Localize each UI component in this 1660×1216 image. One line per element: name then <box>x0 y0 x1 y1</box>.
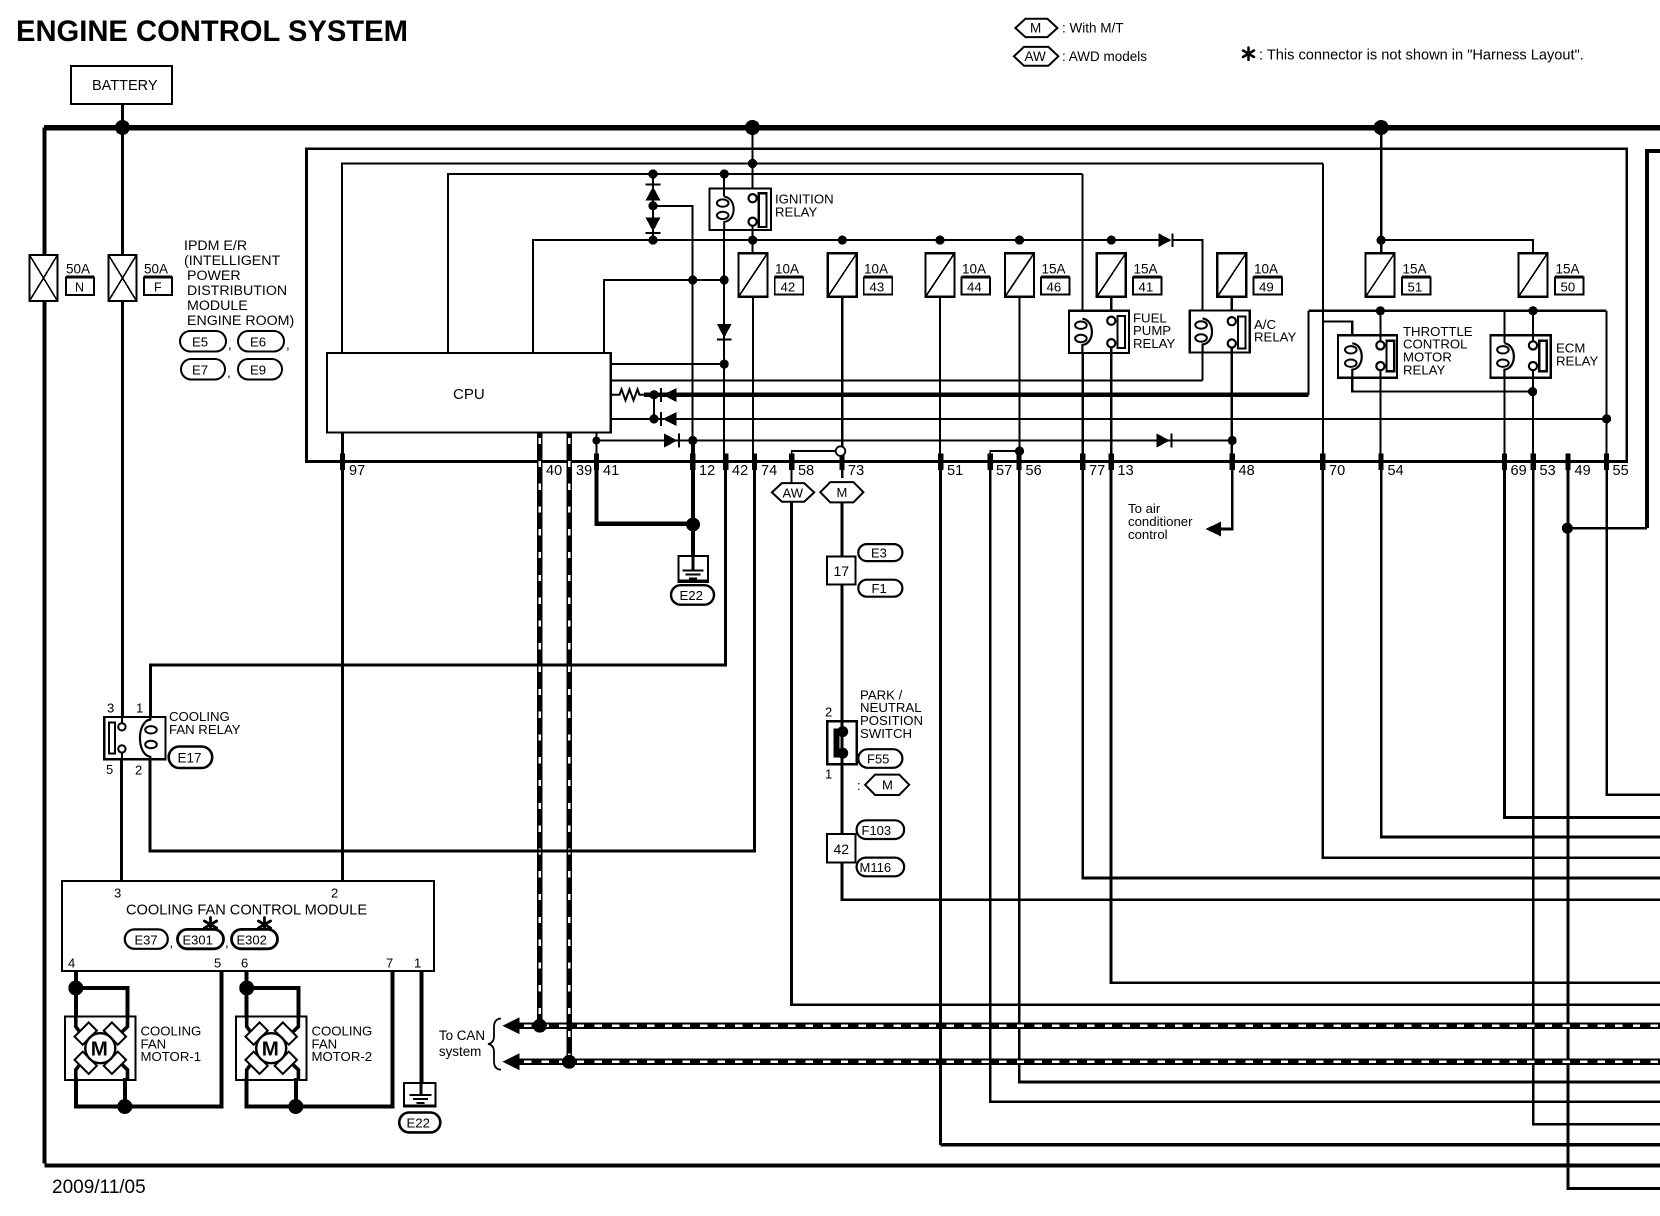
ground E22 lower <box>404 1083 435 1107</box>
IPDM E/R box <box>307 149 1627 462</box>
wire main battery bus <box>44 125 1660 131</box>
pin 13 <box>1109 454 1114 471</box>
pin 56 <box>1017 454 1022 471</box>
node ignition coil CPU drive <box>720 360 729 369</box>
diode chain top D1 cathode up <box>646 184 661 186</box>
wire fuse bus diode to A/C coil <box>1174 240 1203 310</box>
svg-text:73: 73 <box>848 463 864 479</box>
svg-text:: AWD models: : AWD models <box>1062 49 1147 64</box>
wire fuse F riser <box>121 128 124 256</box>
svg-text:M: M <box>262 1038 279 1061</box>
svg-text:15A: 15A <box>1134 262 1158 277</box>
svg-text:E17: E17 <box>178 751 202 766</box>
svg-text:54: 54 <box>1388 463 1404 479</box>
node pin 49 to ECM box corner <box>1562 523 1573 534</box>
wire CPU to A/C relay coil y380.5 <box>611 379 1203 381</box>
fuse 49 10A <box>1217 253 1282 297</box>
svg-text:43: 43 <box>870 280 885 295</box>
connector E37 oval <box>125 918 278 951</box>
wire CPU battery feed thick <box>644 392 1309 397</box>
node battery bus junction <box>115 120 130 135</box>
svg-text:POWER: POWER <box>187 268 241 284</box>
svg-text:39: 39 <box>576 463 592 479</box>
pin 55 <box>1604 454 1609 471</box>
svg-text:53: 53 <box>1540 463 1556 479</box>
wire throttle coil feed <box>1323 322 1352 344</box>
fuel pump relay U-fp <box>1069 311 1129 353</box>
svg-text:10A: 10A <box>1254 262 1278 277</box>
svg-text:MODULE: MODULE <box>187 298 248 314</box>
connector E6 <box>238 331 284 352</box>
arrow CAN line 2 <box>502 1053 519 1070</box>
connector box 17 <box>827 557 856 585</box>
svg-text:48: 48 <box>1239 463 1255 479</box>
pin 70 <box>1320 454 1325 471</box>
svg-text:10A: 10A <box>864 262 888 277</box>
svg-text:,: , <box>170 935 174 950</box>
svg-text:42: 42 <box>732 463 748 479</box>
node motor 1 return <box>117 1099 132 1114</box>
pin 42 <box>723 454 728 471</box>
wire throttle contact to pin 54 <box>1379 370 1381 454</box>
wire pin 55 vertical <box>1605 311 1607 462</box>
diode on CPU battery feed cathode left <box>660 388 662 402</box>
wire riser fuse51 node to thick feed <box>1307 311 1309 395</box>
wire pin 70 down <box>1323 462 1660 858</box>
wire fuel pump coil feed down <box>1081 174 1083 320</box>
svg-text:15A: 15A <box>1556 262 1580 277</box>
svg-text:F55: F55 <box>867 752 889 767</box>
node fuse44 feed <box>935 236 944 245</box>
svg-text:2: 2 <box>331 886 338 901</box>
node y440 CPU stub <box>592 437 600 445</box>
svg-text:51: 51 <box>947 463 963 479</box>
svg-text:AW: AW <box>783 485 804 500</box>
svg-text:7: 7 <box>386 956 393 971</box>
svg-text:AW: AW <box>1025 49 1047 64</box>
node fuse41 feed <box>1107 236 1116 245</box>
pin 97 <box>340 454 345 471</box>
svg-text:(INTELLIGENT: (INTELLIGENT <box>184 253 281 269</box>
svg-text:42: 42 <box>781 280 796 295</box>
svg-text:56: 56 <box>1026 463 1042 479</box>
wire pin 42 to cooling fan relay coil <box>150 462 725 718</box>
wire fuse 41 output to fuel pump contact <box>1110 297 1112 318</box>
connector E17 oval <box>169 747 213 769</box>
node diode chain bottom on fuse bus <box>648 236 657 245</box>
pin 48 <box>1230 454 1235 471</box>
wire battery to bus <box>121 104 124 125</box>
arrow CAN line 1 <box>502 1017 519 1034</box>
node bus junction ignition feed <box>745 120 760 135</box>
node y440 pin12 junction <box>688 436 697 445</box>
wire motor 2 right brush return <box>294 1078 298 1107</box>
node fuse43 feed <box>838 236 847 245</box>
svg-text::: : <box>857 778 861 793</box>
wire pin 74 to cooling fan relay coil return <box>150 462 755 852</box>
brace CAN <box>488 1019 501 1070</box>
svg-text:5: 5 <box>106 762 113 777</box>
wire ECM contact to pin 53 <box>1532 370 1534 454</box>
wire link between y395 and y419 <box>653 395 655 419</box>
svg-text:13: 13 <box>1118 463 1134 479</box>
svg-text:ENGINE ROOM): ENGINE ROOM) <box>187 313 294 329</box>
connector E9 <box>238 359 282 380</box>
wire bottom run to ECM <box>45 1164 1660 1168</box>
node CAN 1 pin 40 <box>533 1019 547 1033</box>
svg-text:N: N <box>75 281 84 295</box>
svg-text:15A: 15A <box>1042 262 1066 277</box>
wire motor 1 return <box>76 971 222 1107</box>
wire fuse 43 output down to variant circle <box>841 297 843 447</box>
pin 39 <box>567 454 572 471</box>
cooling fan motor 2 M2 <box>236 1016 306 1080</box>
legend AW hexagon <box>1014 47 1059 66</box>
wire fuse 49 output to A/C contact <box>1231 297 1233 318</box>
svg-text:,: , <box>286 337 290 352</box>
svg-text:RELAY: RELAY <box>1403 362 1445 377</box>
fuse 42 10A <box>739 253 804 297</box>
node y440 at pin 48 <box>1228 436 1237 445</box>
wire ignition contact bottom to fuse bus <box>752 225 754 253</box>
pin 57 <box>988 454 993 471</box>
node fuse 46 to pin57 jumper <box>1015 447 1024 456</box>
node fuse42 feed <box>748 236 757 245</box>
connector E22 lower oval <box>399 1113 440 1133</box>
battery BATTERY <box>71 66 172 104</box>
wire CPU to ignition coil y364 <box>611 363 725 365</box>
svg-text:: This connector is not shown: : This connector is not shown in "Harnes… <box>1259 48 1584 64</box>
diode chain bottom D2 cathode down <box>646 218 661 232</box>
pin 54 <box>1379 454 1384 471</box>
wire nested line to CPU from diode tap <box>604 280 724 353</box>
connector E3 oval <box>858 544 902 561</box>
wire fuse N output down left side <box>43 301 47 1164</box>
wire pin 77 down <box>1083 462 1660 879</box>
wire pin 49 down <box>1568 462 1660 1189</box>
wire y310.8 fuse 51/50 output rail <box>1309 310 1607 312</box>
diode on fuse bus to A/C coil <box>1159 233 1172 247</box>
cooling fan motor 1 M1 <box>65 1016 135 1080</box>
wire pin 51 down <box>939 462 942 1145</box>
node CAN 2 pin 39 <box>562 1055 576 1069</box>
svg-text:4: 4 <box>68 956 75 971</box>
node throttle coil to ECM contact <box>1528 387 1537 396</box>
connector E7 <box>181 359 225 380</box>
wire fuse F output down to cooling fan relay <box>121 301 124 717</box>
wire pin 56 down <box>1019 462 1660 1082</box>
pin 58 <box>789 454 794 471</box>
node variant open circle <box>836 446 846 456</box>
svg-text:COOLING FAN CONTROL MODULE: COOLING FAN CONTROL MODULE <box>126 903 367 919</box>
wire module pin 6 to motor 2 <box>245 971 249 1018</box>
fuse N 50A <box>30 255 95 301</box>
wire ECM coil feed <box>1503 311 1505 343</box>
svg-text:To CAN: To CAN <box>439 1028 485 1043</box>
svg-text:E301: E301 <box>183 932 213 947</box>
park/neutral position switch S1 <box>827 721 857 764</box>
svg-text:system: system <box>439 1044 481 1059</box>
svg-text:CPU: CPU <box>453 386 485 403</box>
node motor 2 feed <box>239 981 254 996</box>
connector M116 oval <box>857 858 905 877</box>
node y419 left <box>649 414 658 423</box>
node ignition coil y280 <box>720 275 729 284</box>
node ground junction big <box>686 518 700 532</box>
node motor 1 feed <box>68 981 83 996</box>
hexagon AW below pin 58 <box>791 462 793 484</box>
wire fuse 42 output down <box>752 297 754 454</box>
svg-text:RELAY: RELAY <box>775 204 817 219</box>
wire CPU stub to y440 <box>595 432 597 461</box>
svg-text:M: M <box>1030 21 1041 36</box>
wire CAN line 2 dashed <box>518 1059 1660 1065</box>
svg-text:E9: E9 <box>250 363 266 378</box>
wire bus drop to ignition relay contact <box>752 128 754 196</box>
wire fuel pump contact to pin 13 <box>1110 347 1112 454</box>
legend asterisk note <box>1243 48 1254 61</box>
svg-text:,: , <box>227 365 231 380</box>
wire A/C contact to pin 48 <box>1231 347 1233 453</box>
wire fuse 44 output down <box>939 297 941 454</box>
wire pin 53 down <box>1533 462 1660 1125</box>
wire pin 57 down <box>990 462 1660 1102</box>
svg-text:E7: E7 <box>192 363 208 378</box>
svg-text:E5: E5 <box>192 335 208 350</box>
wire throttle contact feed from fuse 51 <box>1379 311 1381 342</box>
svg-text:51: 51 <box>1408 280 1423 295</box>
svg-text:DISTRIBUTION: DISTRIBUTION <box>187 283 287 299</box>
svg-text:M: M <box>837 485 848 500</box>
svg-text:SWITCH: SWITCH <box>860 726 912 741</box>
wire AW branch down <box>792 502 1660 1005</box>
svg-text:15A: 15A <box>1403 262 1427 277</box>
svg-text:10A: 10A <box>962 262 986 277</box>
diode on y440 near CPU anode left <box>664 434 678 448</box>
svg-text:3: 3 <box>114 886 121 901</box>
connector E301 oval <box>204 918 216 932</box>
resistor on CPU battery feed <box>611 389 645 400</box>
connector E302 oval <box>258 918 270 932</box>
svg-text:BATTERY: BATTERY <box>92 78 158 94</box>
svg-text:1: 1 <box>136 701 143 716</box>
pin 77 <box>1080 454 1085 471</box>
wire diode chain vertical <box>652 174 654 240</box>
wire pin 54 down <box>1381 462 1660 838</box>
pins row <box>340 454 1629 480</box>
svg-text:44: 44 <box>967 280 982 295</box>
svg-text:2009/11/05: 2009/11/05 <box>52 1177 146 1198</box>
arrow to air conditioner <box>1206 522 1221 537</box>
fuse 51 15A <box>1366 253 1431 297</box>
svg-text:: With M/T: : With M/T <box>1062 21 1124 36</box>
A/C relay U-ac <box>1190 311 1250 353</box>
wire CPU feed y419 to pin 55 node <box>611 418 1607 420</box>
connector E22 upper oval <box>671 585 714 605</box>
svg-text:74: 74 <box>761 463 777 479</box>
svg-text:RELAY: RELAY <box>1556 353 1598 368</box>
wire motor 1 right brush return <box>123 1078 127 1107</box>
node y419 at pin 55 <box>1602 414 1611 423</box>
svg-text:1: 1 <box>825 767 832 782</box>
svg-text:10A: 10A <box>775 262 799 277</box>
node motor 2 return <box>288 1099 303 1114</box>
svg-text:50A: 50A <box>66 262 90 277</box>
node fuse 51 output <box>1376 306 1385 315</box>
wire pin 69 down <box>1505 462 1660 818</box>
wire nested line to CPU from ignition contact top <box>342 164 1323 354</box>
svg-text:E22: E22 <box>407 1116 430 1131</box>
svg-text:1: 1 <box>414 956 421 971</box>
legend M hexagon <box>1014 19 1584 66</box>
connector E5 <box>180 331 290 380</box>
wire motor 2 return <box>247 971 393 1107</box>
svg-text:MOTOR-2: MOTOR-2 <box>312 1049 373 1064</box>
ignition relay U-ign <box>710 174 772 230</box>
svg-text:E3: E3 <box>871 546 887 561</box>
ground E22 upper <box>679 556 708 582</box>
svg-text:RELAY: RELAY <box>1254 330 1296 345</box>
wire switch to connector 42 box <box>841 764 844 834</box>
fuse 43 10A <box>828 253 893 297</box>
wire nested line to CPU coil feeds <box>448 174 1082 353</box>
wire ignition coil down to pin 42 <box>723 230 725 454</box>
diode on y440 near pin48 anode left <box>1157 434 1171 448</box>
node fuse46 feed <box>1015 236 1024 245</box>
svg-text:FAN RELAY: FAN RELAY <box>169 722 241 737</box>
CPU block <box>327 353 611 432</box>
pin 41 <box>594 454 599 471</box>
svg-text:F: F <box>154 281 162 295</box>
wire cooling fan relay contact to module pin 3 <box>120 759 123 881</box>
node pin12 tap y280 <box>688 275 697 284</box>
wire M branch down <box>841 502 844 556</box>
fuse 46 15A <box>1005 253 1070 297</box>
svg-text:58: 58 <box>798 463 814 479</box>
pin 49 <box>1565 454 1570 471</box>
wire pin 40 CAN dashed <box>537 432 542 1024</box>
wire fuse 51 feed over to fuse 50 <box>1381 240 1533 254</box>
node ignition contact top <box>748 159 757 168</box>
wire fuel pump coil to pin 77 <box>1082 353 1084 454</box>
svg-text:41: 41 <box>1139 280 1154 295</box>
fuse 44 10A <box>926 253 991 297</box>
svg-text:M: M <box>882 778 893 793</box>
svg-text:F103: F103 <box>862 823 892 838</box>
fuse 41 15A <box>1097 253 1162 297</box>
svg-text:55: 55 <box>1613 463 1629 479</box>
svg-text:77: 77 <box>1089 463 1105 479</box>
wire pin 57 jumper to fuse46 <box>990 451 1019 461</box>
svg-text:50: 50 <box>1561 280 1576 295</box>
wire left frame down to fuse N <box>43 128 47 256</box>
wire M branch to ECM <box>842 863 1660 900</box>
hexagon M below pin 73 <box>820 482 863 502</box>
node ignition coil top <box>720 169 729 178</box>
wire pin 51 to ECM thick <box>941 1143 1660 1146</box>
wire bus drop to fuse 51 <box>1380 128 1383 255</box>
connector F103 oval <box>857 820 905 839</box>
svg-text:E22: E22 <box>680 588 703 603</box>
svg-text:3: 3 <box>107 701 114 716</box>
svg-text:,: , <box>225 935 229 950</box>
wire fuse 46 output down <box>1018 297 1020 454</box>
wire pin 58 jumper to variant circle <box>792 451 836 461</box>
node fuse 50 output <box>1528 306 1537 315</box>
wire pin 48 to air conditioner arrow <box>1220 462 1233 530</box>
svg-text:12: 12 <box>699 463 715 479</box>
wire ECM contact feed <box>1532 311 1534 342</box>
wire pin 55 down <box>1607 462 1660 795</box>
node fuse51 feed junction <box>1377 236 1386 245</box>
cooling fan relay U-cf <box>104 717 165 759</box>
node diode chain top <box>648 169 657 178</box>
cooling fan control module box <box>62 881 434 971</box>
svg-text:70: 70 <box>1329 463 1345 479</box>
right ECM box partial <box>1647 151 1660 528</box>
wire diode mid tap to pin12 vertical <box>653 206 693 441</box>
svg-text:F1: F1 <box>872 581 887 596</box>
svg-text:,: , <box>228 337 232 352</box>
connector F1 oval <box>858 580 902 597</box>
wire y440 diode line to pin 48 <box>596 439 1232 441</box>
svg-text:M: M <box>91 1038 108 1061</box>
node bus junction fuse 51/50 feed <box>1374 120 1389 135</box>
diode on ignition coil wire <box>717 324 732 338</box>
svg-text:IPDM E/R: IPDM E/R <box>184 238 247 254</box>
wire pin 12 to ground <box>691 441 695 557</box>
wire pin 49 node to ECM box corner <box>1567 527 1647 530</box>
pin 73 <box>839 454 844 471</box>
label IPDM E/R caption <box>184 238 294 329</box>
svg-text:MOTOR-1: MOTOR-1 <box>141 1049 202 1064</box>
svg-text:2: 2 <box>135 763 142 778</box>
fuse 50 15A <box>1519 253 1584 297</box>
wire pin 13 down <box>1111 462 1660 983</box>
node diode chain mid tap <box>648 201 657 210</box>
wire throttle coil bottom to ECM contact node <box>1352 378 1532 392</box>
svg-text:E6: E6 <box>250 335 266 350</box>
svg-text:97: 97 <box>349 463 365 479</box>
svg-text:41: 41 <box>603 463 619 479</box>
fuses row <box>739 253 1584 297</box>
wire fuse 43 below circle to pin 73 <box>841 455 843 478</box>
wire module pin 1 to ground <box>420 971 424 1083</box>
throttle control motor relay U-tc <box>1338 335 1397 377</box>
diode on y419 cathode left <box>660 412 662 426</box>
svg-text:control: control <box>1128 527 1168 542</box>
svg-text:M116: M116 <box>860 860 892 875</box>
pin 53 <box>1531 454 1536 471</box>
svg-text:E37: E37 <box>135 932 158 947</box>
svg-text:E302: E302 <box>237 932 267 947</box>
connector box 42 <box>827 834 856 863</box>
svg-text:40: 40 <box>546 463 562 479</box>
wire 17 box to park/neutral switch <box>841 585 844 722</box>
svg-text:49: 49 <box>1259 280 1274 295</box>
pin 40 <box>537 454 542 471</box>
pin 51 <box>938 454 943 471</box>
wire fuse bus from CPU <box>533 240 1159 353</box>
node resistor output <box>649 390 658 399</box>
wire pin 97 to module pin 2 <box>341 432 344 881</box>
wire pin 39 CAN dashed <box>566 432 571 1060</box>
svg-text:ENGINE CONTROL SYSTEM: ENGINE CONTROL SYSTEM <box>16 16 408 48</box>
svg-text:RELAY: RELAY <box>1133 336 1175 351</box>
svg-text:69: 69 <box>1511 463 1527 479</box>
connector F55 oval <box>858 749 902 768</box>
pin 69 <box>1502 454 1507 471</box>
